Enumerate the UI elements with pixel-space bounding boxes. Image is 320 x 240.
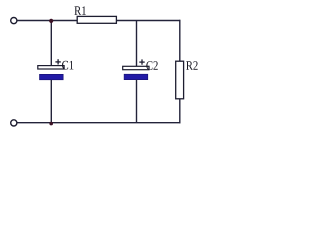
junction node top (dot) [49,19,53,23]
terminal TP2 bottom-left [11,120,17,126]
wire right vertical: corner to R2 [179,20,181,62]
label R2 [186,61,198,70]
resistor R1 [77,16,116,23]
label R1 [74,6,85,15]
label C2 polarity plus [139,59,144,64]
terminal TP1 top-left [11,18,17,24]
capacitor C2 positive plate [123,66,149,69]
label C1 polarity plus [55,59,60,64]
capacitor C1 positive plate [38,66,64,69]
label C1 [62,61,73,70]
wire top horizontal: R1 to top-right corner [116,20,180,22]
wire C1 bottom lead [50,80,52,123]
wire C2 top lead [136,20,138,67]
wire top horizontal: TP1 to R1 [17,20,78,22]
wire bottom horizontal [17,122,181,124]
wire C2 bottom lead [136,80,138,124]
resistor R2 [176,61,184,99]
wire right vertical: R2 to bottom wire [179,99,181,124]
capacitor C2 negative plate [124,74,148,80]
label C2 [146,61,157,70]
capacitor C1 negative plate [40,74,64,80]
junction node bottom (dot) [49,122,53,126]
wire C1 top lead [50,20,52,66]
